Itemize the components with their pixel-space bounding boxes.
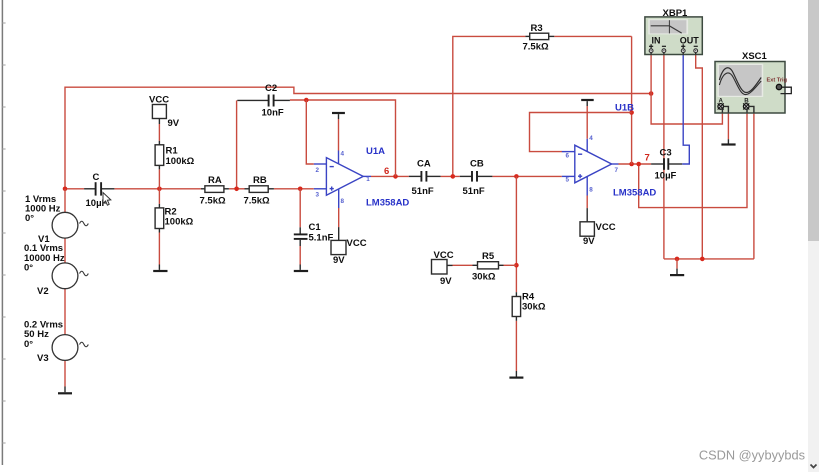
svg-text:VCC: VCC [434, 250, 454, 261]
capacitor C input [84, 182, 114, 195]
svg-text:R5: R5 [482, 251, 495, 262]
svg-text:CB: CB [470, 159, 484, 170]
label XSC1 [742, 51, 768, 62]
svg-text:RB: RB [253, 175, 267, 186]
label C1 [309, 222, 322, 233]
wire ground stem right [676, 259, 678, 274]
value R3 [523, 42, 549, 53]
label R1 [166, 146, 179, 157]
scrollbar right [808, 0, 819, 472]
power VCC source for R5 [432, 260, 448, 275]
wire U1B top pin [586, 106, 588, 139]
value 9V U1B [583, 236, 595, 247]
svg-text:9V: 9V [168, 118, 180, 129]
pin 4 U1B [589, 135, 593, 142]
svg-text:R1: R1 [166, 146, 179, 157]
resistor R2 [155, 189, 164, 233]
node ground rail / gnd stem [675, 257, 680, 262]
resistor R1 [155, 141, 164, 170]
wire U1A bottom pin to VCC [338, 208, 340, 240]
op-amp U1B [562, 139, 619, 196]
value C2 [262, 108, 284, 119]
ground below V3 [58, 392, 72, 394]
svg-text:7.5kΩ: 7.5kΩ [523, 42, 549, 53]
ground below R2 [153, 270, 167, 272]
label C [93, 172, 100, 183]
pin 8 U1B [589, 187, 593, 194]
svg-text:0°: 0° [25, 213, 34, 224]
svg-text:51nF: 51nF [412, 186, 434, 197]
instrument XSC1 [715, 62, 785, 114]
power VCC source U1A [331, 240, 346, 254]
svg-text:XSC1: XSC1 [742, 51, 768, 62]
source V1 [52, 212, 88, 238]
wire to U1A inverting input [306, 100, 314, 164]
capacitor C1 [294, 227, 308, 246]
node U1B output scope branch [636, 162, 641, 167]
svg-text:9V: 9V [583, 236, 595, 247]
label VCC left [149, 95, 169, 106]
label U1A [366, 146, 385, 157]
power VCC source U1B [580, 222, 594, 236]
label 0 deg V1 [25, 213, 34, 224]
wire XBP1 OUT- to ground rail [696, 55, 703, 259]
wire R4-R5 vertical from CB node [515, 176, 517, 292]
power VCC source left column [152, 105, 166, 119]
value RA [200, 195, 226, 206]
label 1000 Hz [25, 204, 61, 215]
ground right rail [670, 274, 684, 276]
label CA [417, 159, 431, 170]
svg-text:8: 8 [341, 198, 345, 205]
label Ext Trig [767, 77, 788, 83]
svg-text:IN: IN [652, 36, 661, 46]
ground above U1A [332, 113, 345, 119]
value 9V R5 [440, 276, 452, 287]
svg-text:V2: V2 [37, 286, 49, 297]
svg-text:3: 3 [316, 192, 320, 199]
wire C2 left vertical [236, 100, 238, 188]
watermark CSDN [699, 448, 805, 463]
mouse cursor [103, 193, 111, 206]
label OUT [680, 36, 700, 46]
svg-text:LM358AD: LM358AD [613, 188, 656, 199]
wire XBP1 IN+ drop [650, 55, 652, 94]
pin 8 U1A [341, 198, 345, 205]
pin 2 U1A [316, 167, 320, 174]
label V1 [38, 234, 50, 245]
label VCC R5 [434, 250, 454, 261]
wire XSC1 A ground lead [727, 113, 729, 144]
value R4 [522, 302, 546, 313]
svg-text:100kΩ: 100kΩ [165, 217, 194, 228]
pin 1 U1A [366, 176, 370, 183]
svg-text:8: 8 [589, 187, 593, 194]
wire XSC1 B signal to U1B output [639, 113, 747, 208]
polarity marks XBP1 [649, 44, 698, 48]
node R3/feedback junction [629, 110, 634, 115]
value CB [463, 186, 485, 197]
svg-text:RA: RA [208, 175, 222, 186]
svg-text:LM358AD: LM358AD [366, 198, 409, 209]
resistor RA [201, 186, 229, 193]
svg-text:5: 5 [566, 177, 570, 184]
wire input net top loop from V1 node to XBP1 IN+ [65, 87, 651, 189]
value C [86, 198, 108, 209]
resistor R3 [525, 33, 554, 39]
wire U1A output row [371, 175, 562, 177]
label VCC U1A [347, 238, 367, 249]
svg-text:9V: 9V [440, 276, 452, 287]
svg-text:C1: C1 [309, 222, 322, 233]
sheet border line left [2, 0, 5, 465]
resistor R5 [473, 262, 504, 269]
svg-text:7: 7 [615, 167, 619, 174]
wire C1 to ground [299, 246, 301, 270]
wire R1 to row [158, 169, 160, 188]
label VCC U1B [596, 222, 616, 233]
pin 3 U1A [316, 192, 320, 199]
svg-text:10nF: 10nF [262, 108, 284, 119]
svg-text:C: C [93, 172, 100, 183]
wire R4 bottom to ground [515, 321, 517, 377]
terminal XBP1 IN- [662, 49, 666, 55]
wire source column [64, 189, 66, 392]
svg-text:OUT: OUT [680, 36, 700, 46]
node R1-R2 column [157, 187, 162, 192]
svg-text:4: 4 [341, 151, 345, 158]
label 0 deg V2 [24, 263, 33, 274]
terminal XBP1 OUT+ [681, 49, 685, 55]
ground below XSC1 A [721, 143, 735, 145]
svg-text:0°: 0° [24, 339, 33, 350]
value C3 [655, 171, 677, 182]
svg-text:4: 4 [589, 135, 593, 142]
value 9V U1A [333, 255, 345, 266]
resistor RB [245, 186, 274, 193]
ground above U1B [581, 100, 594, 106]
terminal Ext Trig [776, 84, 791, 93]
wire to XSC1 channel A [651, 94, 722, 125]
node U1B output feedback [629, 162, 634, 167]
pin 6 U1B [566, 153, 570, 160]
svg-text:VCC: VCC [347, 238, 367, 249]
wire XBP1 IN- to ground rail [663, 55, 665, 259]
wire R2 to ground [158, 233, 160, 270]
value CA [412, 186, 434, 197]
svg-text:XBP1: XBP1 [663, 8, 689, 19]
label XBP1 [663, 8, 689, 19]
node CA-CB / R3 branch [451, 174, 456, 179]
terminal XSC1 A [718, 103, 729, 112]
wire C1 branch [299, 189, 301, 228]
label IN [652, 36, 661, 46]
svg-text:U1A: U1A [366, 146, 385, 157]
svg-text:VCC: VCC [596, 222, 616, 233]
svg-text:30kΩ: 30kΩ [522, 302, 546, 313]
node input/XBP1 junction [649, 91, 654, 96]
resistor R4 [512, 292, 520, 321]
capacitor C3 [651, 158, 682, 170]
svg-text:1: 1 [366, 176, 370, 183]
label LM358AD U1B [613, 188, 656, 199]
ground below C1 [294, 270, 308, 272]
wire C2 right net to output [290, 100, 396, 176]
label R5 [482, 251, 495, 262]
value C1 [309, 233, 334, 244]
svg-text:5.1nF: 5.1nF [309, 233, 334, 244]
label V2 [37, 286, 49, 297]
svg-text:0°: 0° [24, 263, 33, 274]
node source/top loop [63, 187, 68, 192]
label 1 Vrms [25, 194, 56, 205]
svg-text:CSDN @yybyybds: CSDN @yybyybds [699, 448, 805, 463]
svg-text:30kΩ: 30kΩ [472, 272, 496, 283]
wire R3 row [453, 36, 632, 176]
svg-text:C3: C3 [660, 148, 672, 159]
label C2 [265, 83, 277, 94]
ground below R4 [509, 377, 523, 379]
capacitor CB [460, 171, 493, 182]
value R2 [165, 217, 194, 228]
pin 4 U1A [341, 151, 345, 158]
net number 7 [645, 153, 650, 164]
label 0.2 Vrms [24, 320, 63, 331]
instrument XBP1 [645, 17, 702, 55]
svg-text:6: 6 [566, 153, 570, 160]
svg-text:51nF: 51nF [463, 186, 485, 197]
wire blue XBP1 OUT+ to C3 [682, 55, 689, 165]
svg-text:7.5kΩ: 7.5kΩ [244, 195, 270, 206]
pin 7 U1B [615, 167, 619, 174]
node C1 branch on row [298, 187, 303, 192]
wire VCC to R5 row [447, 264, 516, 266]
label R4 [522, 292, 535, 303]
wire ground rail bottom right [664, 258, 754, 260]
wire U1B output row [619, 163, 652, 165]
value RB [244, 195, 270, 206]
svg-text:100kΩ: 100kΩ [166, 156, 195, 167]
label U1B [615, 103, 634, 114]
label 0 deg V3 [24, 339, 33, 350]
label CB [470, 159, 484, 170]
wire R3 right vertical [631, 36, 633, 164]
svg-text:R3: R3 [531, 23, 543, 34]
svg-text:10µF: 10µF [655, 171, 677, 182]
terminal XBP1 OUT- [694, 49, 698, 55]
node ground rail / OUT- [700, 257, 705, 262]
source V3 [52, 335, 88, 361]
svg-text:V3: V3 [37, 353, 49, 364]
capacitor C2 [237, 95, 290, 107]
value R5 [472, 272, 496, 283]
wire VCC to R1 [158, 119, 160, 141]
pin 5 U1B [566, 177, 570, 184]
node R4-R5 junction [514, 263, 519, 268]
capacitor CA [409, 171, 441, 182]
label R2 [165, 207, 177, 218]
svg-text:2: 2 [316, 167, 320, 174]
svg-text:U1B: U1B [615, 103, 634, 114]
svg-text:CA: CA [417, 159, 431, 170]
label 0.1 Vrms [24, 243, 63, 254]
label V3 [37, 353, 49, 364]
svg-text:Ext Trig: Ext Trig [767, 77, 788, 83]
node U1A output / C2 branch [393, 174, 398, 179]
value R1 [166, 156, 195, 167]
net number 6 [384, 166, 389, 177]
label LM358AD U1A [366, 198, 409, 209]
label B [744, 98, 749, 105]
wire U1A top pin [338, 119, 340, 151]
wire main input row [65, 188, 314, 190]
label C3 [660, 148, 672, 159]
value 9V left [168, 118, 180, 129]
label 10000 Hz [24, 253, 65, 264]
wire XSC1 B ground hook [753, 113, 755, 259]
label 50 Hz [24, 329, 49, 340]
terminal XSC1 B [743, 103, 754, 112]
label RA [208, 175, 222, 186]
svg-text:C2: C2 [265, 83, 277, 94]
svg-text:9V: 9V [333, 255, 345, 266]
node C2 / U1A minus branch [304, 98, 309, 103]
svg-text:7: 7 [645, 153, 650, 164]
source V2 [52, 263, 88, 289]
svg-text:6: 6 [384, 166, 389, 177]
wire U1B bottom pin to VCC [586, 196, 588, 222]
svg-text:7.5kΩ: 7.5kΩ [200, 195, 226, 206]
op-amp U1A [314, 151, 371, 209]
wire U1B feedback loop [530, 113, 632, 152]
label R3 [531, 23, 543, 34]
label A [719, 98, 724, 105]
node C2 branch on row [234, 187, 239, 192]
label RB [253, 175, 267, 186]
node CB-U1B / R4 branch [514, 174, 519, 179]
svg-text:VCC: VCC [149, 95, 169, 106]
terminal XBP1 IN+ [649, 49, 653, 55]
